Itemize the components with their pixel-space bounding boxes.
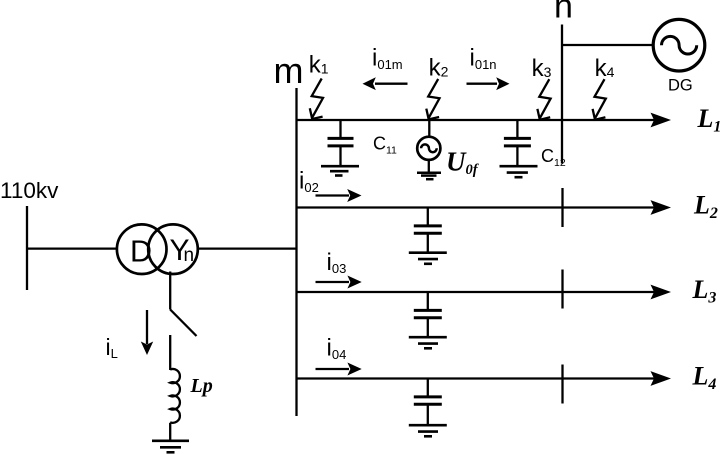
node tick on L2 at n xyxy=(561,188,563,227)
capacitor on L3 lower stem xyxy=(427,318,429,337)
capacitor on L2 stem xyxy=(427,208,429,226)
svg-text:110kv: 110kv xyxy=(0,178,59,203)
capacitor C11 lower stem xyxy=(339,146,341,166)
node tick on L3 at n xyxy=(561,270,563,309)
ground below L2 capacitor xyxy=(409,253,447,264)
svg-text:DG: DG xyxy=(668,76,693,94)
wire switch to coil xyxy=(169,335,171,370)
ground below C12 xyxy=(500,166,538,177)
capacitor on L2 lower stem xyxy=(427,233,429,252)
capacitor on L2 plates xyxy=(414,226,442,233)
node tick on L4 at n xyxy=(561,365,563,404)
bus m xyxy=(295,88,297,416)
current arrow i01n xyxy=(467,77,510,90)
wire transformer neutral down xyxy=(169,272,171,310)
capacitor C12 lower stem xyxy=(516,146,518,166)
ground below L3 capacitor xyxy=(409,337,447,348)
current arrow i03 xyxy=(316,276,362,289)
current arrow i01m xyxy=(363,77,408,90)
capacitor C11 stem xyxy=(339,120,341,138)
svg-text:Lp: Lp xyxy=(190,375,213,397)
wire bus to transformer xyxy=(27,247,117,249)
capacitor on L4 stem xyxy=(427,379,429,397)
fault k4 lightning arrow xyxy=(593,79,606,120)
fault k1 lightning arrow xyxy=(310,79,323,120)
capacitor C12 stem xyxy=(516,120,518,138)
feeder line L2 xyxy=(297,200,672,215)
ground below L4 capacitor xyxy=(409,425,447,436)
feeder line L1 xyxy=(297,113,672,128)
fault k3 lightning arrow xyxy=(537,79,550,120)
current arrow iL xyxy=(141,310,153,355)
wire transformer to bus m xyxy=(198,247,298,249)
generator DG xyxy=(653,19,705,71)
capacitor C12 plates xyxy=(504,138,531,146)
capacitor on L4 lower stem xyxy=(427,404,429,425)
transformer T1 secondary winding Yn xyxy=(148,224,198,274)
ground below C11 xyxy=(321,166,359,175)
ground below coil xyxy=(152,441,189,453)
switch S1 blade xyxy=(170,310,196,337)
svg-text:n: n xyxy=(184,245,195,266)
voltage source U0f lower stem xyxy=(428,160,430,173)
svg-text:n: n xyxy=(554,0,573,25)
capacitor C11 plates xyxy=(328,138,354,146)
bus 110kV xyxy=(26,206,28,290)
capacitor on L4 plates xyxy=(414,397,442,404)
current arrow i02 xyxy=(316,189,362,202)
arc suppression coil Lp xyxy=(170,369,180,423)
wire bus n to DG xyxy=(562,44,653,46)
wire coil to ground xyxy=(169,423,171,441)
fault k2 lightning arrow xyxy=(426,79,439,120)
bus n xyxy=(561,25,563,164)
svg-text:m: m xyxy=(274,50,304,91)
feeder line L4 xyxy=(297,371,672,386)
current arrow i04 xyxy=(316,363,362,376)
voltage source U0f xyxy=(417,137,440,160)
ground below U0f xyxy=(417,173,441,179)
transformer T1 primary winding D xyxy=(117,224,167,274)
capacitor on L3 stem xyxy=(427,292,429,310)
capacitor on L3 plates xyxy=(414,310,442,317)
feeder line L3 xyxy=(297,285,672,300)
voltage source U0f stem xyxy=(428,120,430,137)
